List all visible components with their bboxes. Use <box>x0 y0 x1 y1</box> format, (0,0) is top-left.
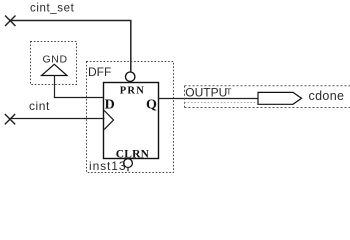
wire cint_set horizontal <box>9 20 132 22</box>
svg-text:T: T <box>226 87 231 97</box>
svg-text:cint: cint <box>29 99 50 113</box>
DFF symbol selection dashed box <box>87 62 174 173</box>
PRN bubble <box>126 72 135 81</box>
svg-text:cint_set: cint_set <box>30 3 75 15</box>
svg-text:D: D <box>105 98 115 113</box>
GND symbol selection dashed box <box>31 42 77 85</box>
CLRN bubble <box>124 159 133 168</box>
ground triangle <box>42 64 68 75</box>
flip-flop U1 body <box>104 83 159 159</box>
svg-text:PRN: PRN <box>120 86 145 97</box>
svg-text:inst13: inst13 <box>89 159 126 173</box>
wire CLRN stub <box>127 168 129 172</box>
output pentagon flag <box>258 92 302 104</box>
wire GND to D input <box>54 97 105 99</box>
wire cint to clock <box>9 118 105 120</box>
wire GND stem down <box>54 76 56 99</box>
input pin cint_set (X symbol) <box>5 16 16 27</box>
svg-text:Q: Q <box>146 98 157 113</box>
output pin selection dashed box <box>185 86 350 108</box>
wire cint_set vertical to PRN bubble <box>130 21 132 72</box>
wire Q to output <box>158 98 258 100</box>
svg-text:DFF: DFF <box>88 65 111 79</box>
input pin cint (X symbol) <box>5 114 15 124</box>
svg-text:GND: GND <box>43 54 68 66</box>
svg-text:OUTPU: OUTPU <box>185 86 227 100</box>
svg-text:cdone: cdone <box>309 89 345 103</box>
clock triangle <box>104 111 113 130</box>
output symbol inner dashed line <box>185 102 258 104</box>
